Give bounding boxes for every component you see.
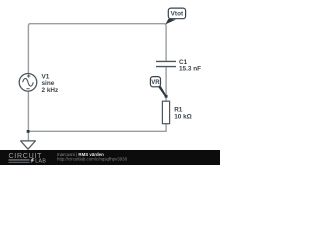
svg-text:Vtot: Vtot [171, 11, 184, 18]
svg-text:http://circuitlab.com/c/nqsqfh: http://circuitlab.com/c/nqsqfhpv3938 [57, 157, 128, 162]
node junction bottom-left [27, 130, 30, 133]
voltage source V1 [19, 74, 37, 92]
svg-text:LAB: LAB [35, 159, 46, 165]
flag tail VR [156, 84, 166, 97]
flag VR [150, 77, 160, 87]
wire: right rail below capacitor, bottom rail [28, 67, 166, 131]
svg-text:2 kHz: 2 kHz [42, 87, 59, 94]
CircuitLab logo [9, 153, 47, 165]
flag Vtot [168, 8, 185, 19]
svg-text:VR: VR [151, 80, 160, 86]
wire: ground stub [27, 131, 29, 141]
svg-text:15.3 nF: 15.3 nF [179, 66, 201, 73]
wire: left rail + top rail + right rail down to capacitor [28, 24, 166, 132]
label V1 / sine / 2 kHz [42, 73, 59, 94]
svg-text:10 kΩ: 10 kΩ [174, 113, 192, 120]
flag tail Vtot [165, 19, 175, 25]
ground [21, 141, 36, 149]
capacitor C1 [156, 61, 176, 66]
label R1 / 10 kOhm [174, 107, 192, 121]
footer bar [0, 150, 220, 165]
node dot VR junction [165, 95, 168, 98]
label C1 / 15.3 nF [179, 59, 201, 73]
resistor R1 [162, 101, 169, 124]
